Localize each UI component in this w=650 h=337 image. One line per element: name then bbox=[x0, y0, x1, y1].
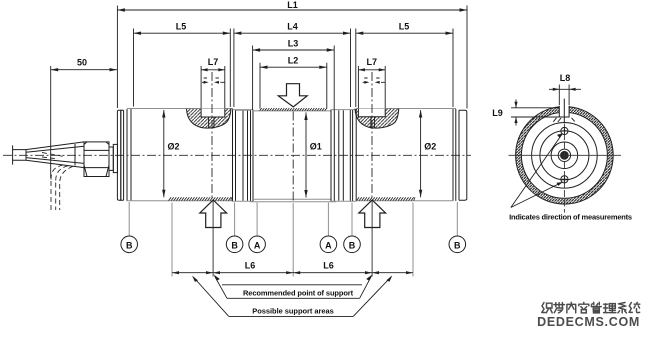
L6 extension verticals bbox=[172, 203, 413, 277]
end view face circle bbox=[532, 123, 598, 189]
glyph li bbox=[604, 304, 616, 313]
balloon A left bbox=[249, 236, 266, 253]
svg-text:L4: L4 bbox=[287, 22, 298, 32]
centerline main view bbox=[3, 154, 471, 156]
glyph tong bbox=[629, 302, 640, 312]
cable gland hex nut bbox=[84, 142, 109, 177]
left ring assembly bbox=[233, 110, 254, 202]
svg-text:Ø2: Ø2 bbox=[424, 142, 436, 152]
gland washer bbox=[109, 147, 113, 170]
svg-text:A: A bbox=[325, 240, 332, 250]
balloon B left inner bbox=[226, 236, 243, 253]
svg-text:L6: L6 bbox=[245, 260, 256, 270]
end view vertical centerline bbox=[563, 124, 565, 213]
svg-text:L5: L5 bbox=[176, 22, 187, 32]
up support arrow right bbox=[359, 200, 386, 228]
dimension L9 bbox=[492, 100, 569, 126]
svg-text:B: B bbox=[349, 240, 356, 250]
svg-text:Ø2: Ø2 bbox=[168, 142, 180, 152]
glyph xi bbox=[618, 303, 627, 313]
right mounting pocket bbox=[355, 109, 399, 129]
dimension L4 bbox=[234, 22, 351, 108]
key slot on rim bbox=[553, 99, 574, 123]
svg-text:B: B bbox=[454, 240, 461, 250]
end view horizontal centerline bbox=[509, 154, 622, 156]
svg-text:L7: L7 bbox=[367, 57, 378, 67]
cable hidden bend arcs bbox=[51, 165, 63, 180]
gland ring bbox=[113, 144, 117, 172]
left mounting pocket bbox=[187, 109, 232, 129]
glyph guan bbox=[591, 302, 601, 313]
left body section (Ø2) bbox=[127, 109, 233, 201]
svg-text:B: B bbox=[231, 240, 238, 250]
dash-dot support centerline left bbox=[211, 72, 213, 200]
dimension L2 bbox=[260, 56, 327, 109]
end view center hole outline bbox=[558, 149, 570, 161]
banner possible support areas bbox=[192, 275, 392, 316]
dimension L8 bbox=[549, 73, 581, 105]
svg-text:Recommended point of support: Recommended point of support bbox=[243, 289, 354, 298]
balloon B right inner bbox=[344, 236, 361, 253]
cable hidden vertical runs bbox=[51, 181, 60, 210]
up support arrow left bbox=[200, 200, 227, 228]
dimension Ø2 right bbox=[419, 110, 436, 197]
svg-text:L9: L9 bbox=[492, 108, 503, 118]
dimension L7 left bbox=[201, 57, 225, 108]
end view center hole fill bbox=[560, 151, 569, 160]
center body section (Ø1) bbox=[250, 111, 336, 202]
end view boss circle bbox=[551, 142, 578, 169]
right bottom support hatch strip bbox=[357, 197, 416, 200]
svg-text:L1: L1 bbox=[287, 0, 298, 10]
dimension L5 left bbox=[134, 22, 231, 108]
balloon B far right bbox=[449, 236, 466, 253]
svg-text:Indicates direction of measure: Indicates direction of measurements bbox=[509, 212, 632, 221]
svg-text:Ø1: Ø1 bbox=[310, 142, 322, 152]
dash-dot support centerline right bbox=[371, 72, 373, 200]
svg-text:A: A bbox=[254, 240, 261, 250]
right ring assembly bbox=[331, 109, 356, 201]
glyph rong bbox=[579, 302, 589, 313]
banner recommended point of support bbox=[214, 275, 373, 299]
dimension L1 bbox=[117, 0, 467, 109]
measurement direction leaders bbox=[511, 134, 562, 207]
left bottom support hatch strip bbox=[169, 197, 232, 200]
watermark line 1 (CJK drawn as paths) bbox=[542, 302, 640, 313]
cable cone bbox=[26, 142, 84, 168]
screw top bbox=[561, 127, 568, 134]
leader lines to balloons bbox=[129, 202, 457, 236]
right body section (Ø2) bbox=[356, 109, 453, 201]
end view rim inner circle bbox=[521, 112, 607, 198]
end view rim hatch ring bbox=[516, 107, 614, 205]
cable end tick bbox=[12, 145, 14, 164]
down load arrow bbox=[278, 84, 307, 107]
cone hidden lines bbox=[42, 153, 64, 160]
screw bottom bbox=[561, 176, 568, 183]
cable lines bbox=[13, 150, 26, 161]
svg-text:50: 50 bbox=[77, 58, 87, 68]
end view bolt circle bbox=[540, 131, 589, 180]
dimension L6 line bbox=[172, 260, 413, 274]
dimension 50 bbox=[51, 58, 117, 179]
svg-text:DEDECMS.COM: DEDECMS.COM bbox=[537, 315, 640, 329]
glyph meng bbox=[554, 303, 565, 313]
balloon A right bbox=[320, 236, 337, 253]
body left end cap bbox=[117, 110, 120, 200]
center top support hatch strip bbox=[260, 108, 327, 111]
dash-dot center vertical bbox=[292, 112, 294, 202]
dimension Ø2 left bbox=[162, 110, 179, 197]
glyph nei bbox=[567, 302, 576, 313]
svg-text:B: B bbox=[126, 240, 133, 250]
svg-text:L6: L6 bbox=[323, 260, 334, 270]
glyph zhi bbox=[542, 303, 552, 313]
svg-text:L8: L8 bbox=[560, 73, 571, 83]
dimension Ø1 bbox=[304, 113, 322, 198]
svg-text:L3: L3 bbox=[288, 39, 299, 49]
svg-text:Possible support areas: Possible support areas bbox=[252, 306, 333, 315]
dimension L7 right bbox=[358, 57, 385, 108]
svg-text:L5: L5 bbox=[399, 22, 410, 32]
body right end cap bbox=[456, 109, 467, 201]
dimension L3 bbox=[253, 39, 335, 111]
svg-text:L7: L7 bbox=[208, 57, 219, 67]
balloon B far left bbox=[121, 236, 138, 253]
dimension L5 right bbox=[356, 22, 453, 108]
svg-text:L2: L2 bbox=[288, 56, 299, 66]
end view outer circle bbox=[516, 107, 614, 205]
